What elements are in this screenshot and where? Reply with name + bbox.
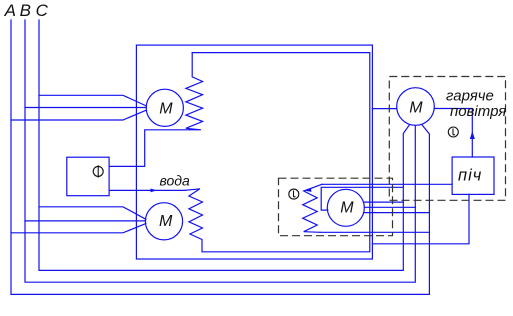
- svg-text:B: B: [20, 1, 31, 20]
- svg-text:C: C: [36, 1, 49, 20]
- svg-text:гаряче: гаряче: [446, 88, 494, 105]
- svg-text:A: A: [4, 1, 16, 20]
- svg-text:M: M: [340, 200, 354, 217]
- svg-text:піч: піч: [458, 167, 482, 185]
- svg-text:M: M: [409, 100, 423, 117]
- svg-text:M: M: [159, 213, 173, 230]
- svg-text:M: M: [159, 101, 173, 118]
- svg-text:вода: вода: [160, 173, 191, 189]
- svg-text:повітря: повітря: [450, 103, 506, 120]
